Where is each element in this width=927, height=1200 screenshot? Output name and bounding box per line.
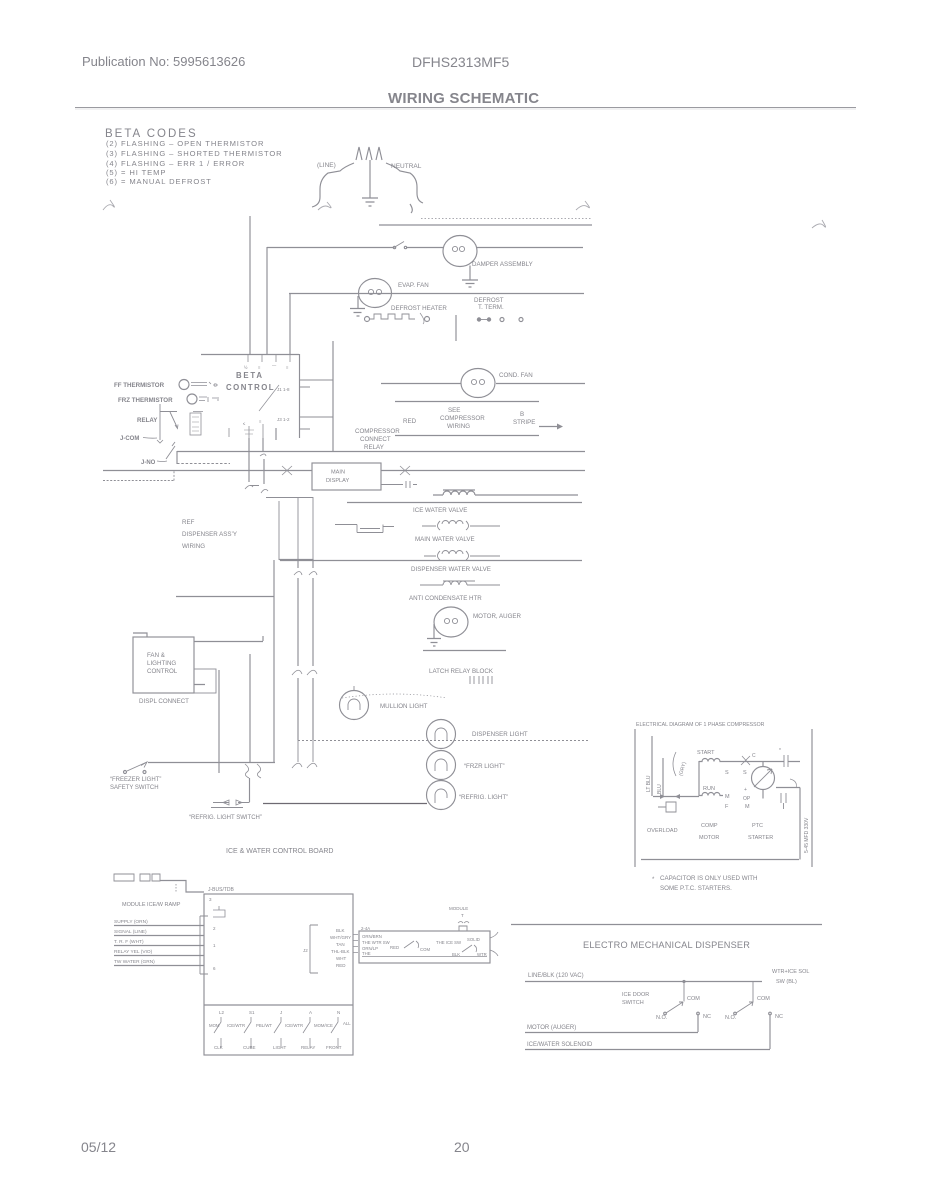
- wire bus drop 1: [248, 438, 250, 482]
- svg-text:FRONT: FRONT: [326, 1045, 342, 1050]
- compressor detail: [635, 722, 812, 892]
- connector jumpers left: [335, 525, 394, 533]
- ground auger: [427, 624, 441, 646]
- header: [75, 54, 856, 109]
- beta-codes: [103, 128, 826, 228]
- svg-text:A: A: [309, 1010, 312, 1015]
- svg-text:CONNECT: CONNECT: [360, 436, 391, 443]
- svg-text:S1: S1: [249, 1010, 255, 1015]
- wire input 1: [114, 925, 204, 927]
- dip switches: [114, 874, 160, 881]
- svg-text:PBL/WT: PBL/WT: [256, 1023, 272, 1028]
- svg-text:MAIN: MAIN: [331, 470, 345, 476]
- svg-text:ANTI CONDENSATE HTR: ANTI CONDENSATE HTR: [409, 595, 482, 602]
- overload device: [658, 802, 676, 812]
- svg-text:CONTROL: CONTROL: [226, 383, 275, 392]
- wire drops into box top: [249, 216, 251, 354]
- wire row y480 short: [103, 471, 174, 481]
- svg-text:ELECTRO MECHANICAL DISPENSER: ELECTRO MECHANICAL DISPENSER: [583, 940, 750, 950]
- pins box bottom: [229, 424, 263, 438]
- svg-text:BLU: BLU: [657, 784, 663, 794]
- pins box right: [299, 380, 333, 429]
- svg-text:≤: ≤: [243, 421, 246, 426]
- svg-text:CUBE: CUBE: [243, 1045, 256, 1050]
- svg-text:DISPENSER ASS’Y: DISPENSER ASS’Y: [182, 531, 237, 538]
- squiggle continuation mark far right: [812, 220, 826, 228]
- coil start winding: [699, 759, 723, 762]
- svg-text:EVAP. FAN: EVAP. FAN: [398, 282, 429, 289]
- svg-text:ICE/WTR: ICE/WTR: [227, 1023, 245, 1028]
- squiggle continuation mark right: [576, 201, 589, 210]
- svg-text:SOLID: SOLID: [467, 937, 480, 942]
- box dispenser switch block: [359, 931, 490, 963]
- wire evap row: [289, 293, 584, 295]
- svg-text:≡: ≡: [286, 365, 289, 370]
- svg-text:DISPENSER WATER VALVE: DISPENSER WATER VALVE: [411, 566, 491, 573]
- svg-text:NC: NC: [703, 1014, 711, 1020]
- svg-text:C: C: [752, 753, 756, 759]
- capacitor C1: [784, 755, 788, 767]
- svg-text:MOM/ICE: MOM/ICE: [314, 1023, 333, 1028]
- svg-text:ICE DOOR: ICE DOOR: [622, 992, 649, 998]
- svg-text:ICE/WTR: ICE/WTR: [285, 1023, 303, 1028]
- wire cap branch right: [776, 762, 800, 860]
- wire bus right verticals: [297, 559, 299, 740]
- squiggle continuation mark left: [103, 200, 114, 210]
- svg-text:RELAY: RELAY: [137, 417, 158, 424]
- wire dip feed: [160, 881, 204, 893]
- box lighting control: [133, 637, 194, 693]
- switch in block 1: [404, 941, 419, 948]
- wire cond row: [381, 383, 585, 385]
- thermistor FF symbol: [179, 380, 189, 390]
- svg-text:RED: RED: [390, 945, 399, 950]
- svg-text:RELAY: RELAY: [301, 1045, 315, 1050]
- box U1 beta control: [201, 354, 300, 438]
- svg-text:LATCH RELAY BLOCK: LATCH RELAY BLOCK: [429, 668, 494, 675]
- svg-text:PTC: PTC: [752, 823, 763, 829]
- svg-text:N.O.: N.O.: [656, 1015, 668, 1021]
- svg-text:FRZ THERMISTOR: FRZ THERMISTOR: [118, 397, 173, 404]
- svg-text:NC: NC: [775, 1014, 783, 1020]
- box compressor right bracket: [811, 729, 813, 867]
- svg-text:SEE: SEE: [448, 407, 460, 414]
- svg-text:J2: J2: [303, 948, 308, 953]
- svg-text:2: 2: [213, 926, 216, 931]
- lamp refrig light: [427, 781, 456, 810]
- mid lines and aux display: [103, 341, 585, 550]
- connector symbol below aux box: [381, 481, 417, 488]
- svg-text:TAN: TAN: [336, 942, 345, 947]
- svg-text:S: S: [725, 770, 729, 776]
- ice water board: [114, 848, 498, 1055]
- pins box top: [248, 354, 290, 362]
- svg-text:(6) = MANUAL DEFROST: (6) = MANUAL DEFROST: [106, 177, 212, 186]
- svg-text:½: ½: [244, 365, 248, 370]
- dotted wire mullion: [342, 694, 447, 698]
- svg-text:WTR: WTR: [477, 952, 487, 957]
- svg-text:0: 0: [214, 383, 217, 389]
- wire long vertical x274: [273, 560, 275, 762]
- wire section top rule: [511, 924, 822, 926]
- svg-text:(2) FLASHING – OPEN THERMISTO: (2) FLASHING – OPEN THERMISTOR: [106, 139, 264, 148]
- arrow to compressor detail: [539, 426, 557, 428]
- svg-text:20: 20: [454, 1139, 470, 1155]
- wire lead BLU: [662, 758, 664, 796]
- svg-text:MAIN WATER VALVE: MAIN WATER VALVE: [415, 536, 475, 543]
- ground evap: [350, 296, 365, 316]
- svg-text:REF: REF: [182, 519, 195, 526]
- wire dotted neutral: [421, 218, 592, 220]
- compressor callout: [395, 401, 539, 403]
- capacitor C2: [781, 793, 786, 809]
- switch freezer light safety: [148, 762, 275, 764]
- solenoid L3 dispenser water valve: [424, 551, 500, 561]
- svg-text:ELECTRICAL DIAGRAM OF 1 PHASE: ELECTRICAL DIAGRAM OF 1 PHASE COMPRESSOR: [636, 722, 765, 728]
- switch sw4: [303, 1017, 310, 1048]
- svg-text:RUN: RUN: [703, 786, 715, 792]
- plug body wires: [312, 163, 354, 207]
- junction X right: [400, 466, 410, 475]
- junction X left: [282, 466, 292, 475]
- svg-text:T: T: [461, 913, 464, 918]
- svg-text:LIGHTING: LIGHTING: [147, 660, 176, 667]
- svg-text:S: S: [743, 770, 747, 776]
- svg-text:THE ICE SW: THE ICE SW: [436, 940, 462, 945]
- svg-text:ALL: ALL: [343, 1021, 351, 1026]
- box display connector: [194, 669, 216, 693]
- svg-text:LIGHT: LIGHT: [273, 1045, 287, 1050]
- svg-text:RED: RED: [403, 418, 417, 425]
- svg-text:BLK: BLK: [336, 928, 345, 933]
- lighting: [110, 633, 590, 821]
- svg-text:THE WTR SW: THE WTR SW: [362, 940, 391, 945]
- plug prongs: [356, 147, 382, 160]
- svg-text:MOTOR, AUGER: MOTOR, AUGER: [473, 613, 522, 620]
- svg-text:N.O.: N.O.: [725, 1015, 737, 1021]
- wire bottom rail: [641, 859, 799, 861]
- svg-text:SIGNAL (LINE): SIGNAL (LINE): [114, 929, 147, 935]
- wire input 4: [114, 955, 204, 957]
- wire start box left: [698, 761, 700, 796]
- svg-text:THL-BLK: THL-BLK: [331, 949, 350, 954]
- svg-text:STARTER: STARTER: [748, 835, 773, 841]
- svg-text:(4) FLASHING – ERR 1 / ERROR: (4) FLASHING – ERR 1 / ERROR: [106, 159, 245, 168]
- svg-text:ICE & WATER CONTROL BOARD: ICE & WATER CONTROL BOARD: [226, 848, 333, 855]
- svg-text:(5) = HI TEMP: (5) = HI TEMP: [106, 168, 166, 177]
- solenoid L4 ice dispenser: [420, 581, 500, 585]
- switch in block 2: [462, 945, 477, 952]
- valve coils: [280, 490, 582, 698]
- vertical bus: [176, 428, 317, 778]
- svg-text:DEFROST HEATER: DEFROST HEATER: [391, 305, 447, 312]
- svg-text:“FREEZER LIGHT”: “FREEZER LIGHT”: [110, 777, 161, 783]
- svg-text:T. R. F (WHT): T. R. F (WHT): [114, 939, 144, 945]
- svg-text:DISPLAY: DISPLAY: [326, 478, 349, 484]
- wire thermostat drop: [455, 315, 457, 341]
- svg-text:RELAY YEL (VIO): RELAY YEL (VIO): [114, 949, 153, 955]
- svg-text:“REFRIG. LIGHT”: “REFRIG. LIGHT”: [459, 794, 508, 801]
- motor cond fan: [461, 369, 495, 398]
- svg-text:ORN/BRN: ORN/BRN: [362, 934, 382, 939]
- wire row y470: [103, 470, 585, 472]
- svg-text:MOTOR: MOTOR: [699, 835, 719, 841]
- break mark bus1: [245, 485, 253, 489]
- wire J-NO out: [177, 463, 230, 465]
- svg-text:SUPPLY (ORN): SUPPLY (ORN): [114, 919, 148, 925]
- svg-text:MOM: MOM: [209, 1023, 220, 1028]
- ground: [362, 198, 378, 206]
- PTC starter circle: [752, 767, 775, 790]
- svg-text:OVERLOAD: OVERLOAD: [647, 828, 678, 834]
- svg-text:N: N: [337, 1010, 340, 1015]
- svg-text:MODULE: MODULE: [449, 906, 468, 911]
- wire J-NO feed: [176, 451, 178, 464]
- svg-text:+: +: [744, 787, 747, 793]
- svg-text:BLK: BLK: [452, 952, 460, 957]
- svg-text:*: *: [779, 748, 781, 754]
- wire input 5: [114, 965, 204, 967]
- wire refrig light feed dark: [263, 803, 427, 805]
- wire lead LT BLU: [651, 736, 653, 796]
- switch S contact: [741, 756, 750, 765]
- svg-text:COM: COM: [420, 947, 430, 952]
- lamp frz light: [427, 751, 456, 780]
- svg-text:*: *: [652, 877, 655, 883]
- wire row y560: [280, 560, 582, 562]
- switch J relay contact: [166, 442, 175, 459]
- wire input 3: [114, 945, 204, 947]
- squiggle continuation mark center: [318, 202, 331, 210]
- svg-text:COM: COM: [687, 996, 700, 1002]
- svg-text:COMP: COMP: [701, 823, 718, 829]
- svg-text:M: M: [745, 804, 750, 810]
- electro mechanical dispenser: [511, 925, 822, 1050]
- svg-text:WIRING SCHEMATIC: WIRING SCHEMATIC: [388, 90, 539, 107]
- wire block exits: [490, 932, 498, 956]
- switch refrig light: [249, 778, 251, 802]
- switch sw1: [214, 1017, 221, 1048]
- svg-text:≡: ≡: [259, 419, 262, 424]
- solenoid L1 ice water valve: [433, 490, 578, 495]
- svg-text:Publication No: 5995613626: Publication No: 5995613626: [82, 54, 245, 69]
- svg-text:J-BUS/TDB: J-BUS/TDB: [208, 887, 235, 893]
- svg-text:SOME P.T.C. STARTERS.: SOME P.T.C. STARTERS.: [660, 885, 732, 892]
- svg-text:T. TERM.: T. TERM.: [478, 304, 504, 311]
- svg-text:DEFROST: DEFROST: [474, 297, 504, 304]
- svg-text:RELAY: RELAY: [364, 444, 384, 451]
- svg-text:COMPRESSOR: COMPRESSOR: [355, 428, 400, 435]
- svg-text:(GRY): (GRY): [678, 761, 688, 776]
- pin component: [213, 906, 225, 917]
- lamp mullion light: [340, 691, 369, 720]
- svg-text:DISPENSER LIGHT: DISPENSER LIGHT: [472, 731, 528, 738]
- svg-text:FF THERMISTOR: FF THERMISTOR: [114, 382, 165, 389]
- motor damper: [443, 236, 477, 267]
- solenoid L2 main water valve: [422, 521, 500, 531]
- wire lighting box top stub: [133, 633, 147, 637]
- svg-text:J1 1-8: J1 1-8: [277, 387, 290, 392]
- box control board: [204, 894, 353, 1055]
- svg-text:L2: L2: [219, 1010, 225, 1015]
- wire bus drop 3: [275, 428, 277, 440]
- svg-text:DAMPER ASSEMBLY: DAMPER ASSEMBLY: [472, 261, 533, 268]
- svg-text:OP: OP: [743, 796, 751, 802]
- switch sw3: [274, 1017, 281, 1048]
- svg-text:MOTOR (AUGER): MOTOR (AUGER): [527, 1025, 576, 1031]
- svg-text:DFHS2313MF5: DFHS2313MF5: [412, 54, 509, 70]
- wire row y502: [347, 502, 582, 504]
- wire center prong to ground: [369, 160, 371, 198]
- svg-text:NEUTRAL: NEUTRAL: [391, 163, 422, 170]
- top rows: damper, evap, cond: [267, 219, 592, 452]
- svg-text:COM: COM: [757, 996, 770, 1002]
- svg-text:J: J: [280, 1010, 282, 1015]
- switch dispenser 1: [666, 982, 684, 1014]
- break arcs bus right: [294, 572, 317, 576]
- switch sw5: [331, 1017, 338, 1048]
- wire lighting box right stubs: [194, 636, 263, 685]
- svg-text:COND. FAN: COND. FAN: [499, 372, 533, 379]
- wire motor auger: [525, 1015, 698, 1033]
- svg-text:START: START: [697, 750, 715, 756]
- wire input 2: [114, 935, 204, 937]
- switch damper: [394, 242, 404, 248]
- svg-text:DISPL CONNECT: DISPL CONNECT: [139, 698, 189, 705]
- svg-text:≡: ≡: [258, 365, 261, 370]
- wire bus horizontal y559: [279, 559, 313, 561]
- motor evap fan: [359, 279, 392, 308]
- svg-text:05/12: 05/12: [81, 1139, 116, 1155]
- connector J2: [310, 925, 318, 973]
- svg-text:TW WATER (GRN): TW WATER (GRN): [114, 959, 155, 965]
- svg-text:FAN &: FAN &: [147, 652, 166, 659]
- svg-text:1: 1: [213, 943, 216, 948]
- svg-text:(3) FLASHING – SHORTED THERMIS: (3) FLASHING – SHORTED THERMISTOR: [106, 149, 283, 158]
- svg-text:B: B: [520, 411, 524, 418]
- wire ice water solenoid: [525, 1015, 770, 1050]
- wire PTC bottom: [762, 790, 764, 799]
- connector blocks: [470, 676, 492, 684]
- wire run rail: [653, 796, 699, 798]
- svg-text:WHT: WHT: [336, 956, 346, 961]
- svg-text:5-45 MFD 330V: 5-45 MFD 330V: [804, 817, 810, 853]
- wire line bus: [379, 224, 592, 226]
- svg-text:J-NO: J-NO: [141, 460, 156, 466]
- svg-text:ICE WATER VALVE: ICE WATER VALVE: [413, 507, 467, 514]
- svg-text:“FRZR LIGHT”: “FRZR LIGHT”: [464, 763, 505, 770]
- svg-text:3: 3: [209, 897, 212, 902]
- svg-text:M: M: [725, 794, 730, 800]
- svg-text:COMPRESSOR: COMPRESSOR: [440, 415, 485, 422]
- beta control box: [114, 216, 333, 466]
- diagonal detail inside box: [259, 385, 279, 411]
- svg-text:WIRING: WIRING: [182, 543, 205, 550]
- svg-text:THE: THE: [362, 951, 371, 956]
- svg-text:STRIPE: STRIPE: [513, 419, 535, 426]
- power cord: [312, 147, 423, 213]
- relay K1 symbol: [160, 404, 177, 440]
- svg-text:LT BLU: LT BLU: [646, 775, 652, 792]
- lamp dispenser light: [427, 720, 456, 749]
- box aux display: [312, 463, 381, 490]
- wire horizontal y596: [176, 596, 274, 598]
- connector board left: [200, 916, 208, 974]
- ground damper: [462, 266, 478, 288]
- svg-text:—: —: [272, 363, 277, 368]
- box compressor left bracket: [634, 729, 636, 867]
- wire PTC drop: [762, 761, 764, 767]
- svg-text:SWITCH: SWITCH: [622, 1000, 644, 1006]
- break marks under safety line: [245, 764, 261, 778]
- wire board to block: [353, 935, 358, 953]
- svg-text:RED: RED: [336, 963, 346, 968]
- svg-text:2-4A: 2-4A: [361, 926, 370, 931]
- svg-text:6: 6: [213, 966, 216, 971]
- svg-text:WIRING: WIRING: [447, 423, 470, 430]
- svg-text:CONTROL: CONTROL: [147, 668, 178, 675]
- wire row y650: [423, 650, 506, 652]
- svg-text:WHT/GRY: WHT/GRY: [330, 935, 351, 940]
- wire bus drop 2: [263, 438, 264, 484]
- motor M1 auger: [434, 607, 468, 637]
- svg-text:SAFETY SWITCH: SAFETY SWITCH: [110, 785, 159, 791]
- wire line blk: [525, 981, 762, 983]
- wire start to cap: [723, 761, 800, 763]
- coil run winding: [699, 793, 723, 796]
- svg-text:J-COM: J-COM: [120, 436, 139, 442]
- wire vertical right of compressor relay: [332, 341, 334, 451]
- thermistor FRZ symbol: [187, 394, 197, 404]
- wire row y451: [177, 451, 585, 453]
- svg-text:F: F: [725, 804, 729, 810]
- svg-text:(LINE): (LINE): [317, 162, 336, 169]
- wire dashed dispenser: [298, 740, 590, 742]
- svg-text:SW (BL): SW (BL): [776, 979, 797, 985]
- svg-text:ICE/WATER SOLENOID: ICE/WATER SOLENOID: [527, 1042, 593, 1048]
- wire damper row: [267, 247, 583, 249]
- footer: [81, 1139, 470, 1155]
- svg-text:J3 1-2: J3 1-2: [277, 417, 290, 422]
- svg-text:MODULE ICE/W RAMP: MODULE ICE/W RAMP: [122, 902, 181, 908]
- svg-text:MULLION LIGHT: MULLION LIGHT: [380, 703, 428, 710]
- switch dispenser 2: [736, 982, 753, 1013]
- svg-text:CAPACITOR IS ONLY USED WITH: CAPACITOR IS ONLY USED WITH: [660, 875, 758, 882]
- svg-text:“REFRIG. LIGHT SWITCH”: “REFRIG. LIGHT SWITCH”: [189, 815, 262, 821]
- wire step connectors: [250, 486, 313, 561]
- svg-text:LINE/BLK (120 VAC): LINE/BLK (120 VAC): [528, 973, 584, 979]
- switch sw2: [244, 1017, 251, 1048]
- svg-text:CLK: CLK: [214, 1045, 223, 1050]
- svg-text:WTR+ICE SOL: WTR+ICE SOL: [772, 969, 809, 975]
- svg-text:BETA: BETA: [236, 371, 264, 380]
- wire vertical x250 lower: [249, 654, 251, 762]
